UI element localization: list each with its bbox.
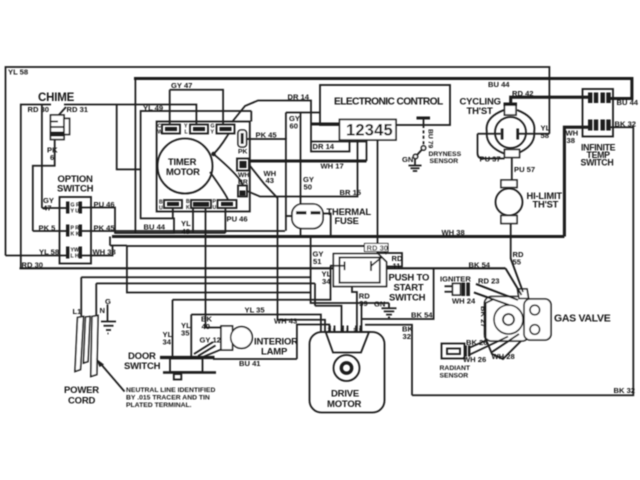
svg-text:BU 41: BU 41 <box>239 359 261 368</box>
svg-text:CHIME: CHIME <box>38 92 75 104</box>
svg-text:BK 27: BK 27 <box>479 306 488 328</box>
svg-text:WH 38: WH 38 <box>442 228 465 237</box>
svg-text:YL 35: YL 35 <box>245 306 266 315</box>
svg-text:43: 43 <box>266 176 274 185</box>
svg-text:PU 37: PU 37 <box>480 155 501 164</box>
svg-text:WH 17: WH 17 <box>321 162 344 171</box>
svg-text:BU 44: BU 44 <box>488 80 510 89</box>
svg-text:DRIVE: DRIVE <box>331 389 359 400</box>
svg-text:CORD: CORD <box>68 396 96 407</box>
svg-text:GY 47: GY 47 <box>171 81 192 90</box>
svg-text:SWITCH: SWITCH <box>57 184 94 195</box>
svg-text:K K: K K <box>71 232 80 238</box>
svg-text:BK 54: BK 54 <box>411 311 433 320</box>
svg-text:PU 46: PU 46 <box>94 200 115 209</box>
svg-text:PK 45: PK 45 <box>94 224 116 233</box>
svg-text:BU 44: BU 44 <box>144 223 166 232</box>
svg-text:38: 38 <box>567 136 575 145</box>
svg-text:FUSE: FUSE <box>335 215 359 226</box>
svg-text:WH: WH <box>238 172 249 179</box>
svg-text:51: 51 <box>313 257 322 266</box>
svg-text:MOTOR: MOTOR <box>166 166 200 177</box>
svg-text:PU 46: PU 46 <box>227 215 248 224</box>
svg-text:BK 32: BK 32 <box>615 120 637 129</box>
svg-text:BK 32: BK 32 <box>614 386 636 395</box>
svg-text:N: N <box>100 306 105 315</box>
svg-text:RD 30: RD 30 <box>28 105 50 114</box>
svg-text:BK 26: BK 26 <box>466 338 488 347</box>
svg-text:LAMP: LAMP <box>261 347 288 358</box>
svg-text:WH 28: WH 28 <box>492 352 515 361</box>
svg-text:58: 58 <box>541 131 549 140</box>
svg-text:BR 15: BR 15 <box>340 188 362 197</box>
svg-text:DRYNESS: DRYNESS <box>429 151 462 158</box>
svg-text:40: 40 <box>202 322 210 331</box>
svg-text:WH 43: WH 43 <box>274 317 297 326</box>
svg-text:W: W <box>158 130 163 136</box>
svg-text:TH'ST: TH'ST <box>533 199 559 210</box>
svg-text:PLATED TERMINAL.: PLATED TERMINAL. <box>126 402 192 409</box>
svg-text:RD 31: RD 31 <box>67 105 89 114</box>
svg-text:34: 34 <box>163 338 172 347</box>
svg-text:BU 44: BU 44 <box>617 98 639 107</box>
svg-text:IGNITER: IGNITER <box>440 275 471 284</box>
svg-text:DR 14: DR 14 <box>313 142 335 151</box>
svg-text:SWITCH: SWITCH <box>581 158 614 168</box>
svg-text:YL 58: YL 58 <box>8 68 28 77</box>
svg-text:POWER: POWER <box>64 385 99 396</box>
svg-text:U: U <box>159 206 163 212</box>
svg-text:YL 49: YL 49 <box>143 104 163 113</box>
svg-text:GN: GN <box>374 300 385 309</box>
svg-text:BK 54: BK 54 <box>469 261 491 270</box>
svg-text:RD 30: RD 30 <box>22 261 44 270</box>
svg-text:49: 49 <box>182 227 190 236</box>
svg-text:PK 45: PK 45 <box>256 131 278 140</box>
svg-text:RD 42: RD 42 <box>512 89 534 98</box>
svg-text:DR 14: DR 14 <box>288 93 310 102</box>
svg-text:SWITCH: SWITCH <box>389 293 426 304</box>
svg-text:ELECTRONIC CONTROL: ELECTRONIC CONTROL <box>334 97 443 108</box>
svg-text:SENSOR: SENSOR <box>440 373 469 380</box>
svg-text:WH 26: WH 26 <box>463 355 486 364</box>
svg-text:Y: Y <box>211 130 215 136</box>
svg-text:BY .015 TRACER AND TIN: BY .015 TRACER AND TIN <box>126 395 210 402</box>
svg-text:11: 11 <box>393 262 402 271</box>
svg-text:GAS VALVE: GAS VALVE <box>554 313 611 325</box>
svg-text:60: 60 <box>290 122 298 131</box>
svg-text:WH 38: WH 38 <box>93 248 116 257</box>
svg-text:L H: L H <box>71 254 80 260</box>
svg-text:32: 32 <box>403 332 411 341</box>
svg-text:BU 79: BU 79 <box>427 129 434 148</box>
svg-text:YL 58: YL 58 <box>39 248 59 257</box>
svg-text:SWITCH: SWITCH <box>124 361 161 372</box>
svg-text:RD 23: RD 23 <box>478 277 500 286</box>
svg-text:34: 34 <box>322 277 331 286</box>
svg-text:RADIANT: RADIANT <box>440 365 471 372</box>
svg-text:50: 50 <box>304 183 312 192</box>
svg-text:47: 47 <box>43 204 51 213</box>
svg-text:K: K <box>186 205 190 211</box>
svg-text:12345: 12345 <box>346 121 393 139</box>
svg-text:L1: L1 <box>73 307 83 316</box>
svg-text:SENSOR: SENSOR <box>430 158 459 165</box>
svg-text:WH 24: WH 24 <box>452 297 476 306</box>
svg-text:35: 35 <box>181 329 190 338</box>
svg-text:U: U <box>213 205 217 211</box>
svg-text:TH'ST: TH'ST <box>467 106 493 117</box>
svg-text:Y U: Y U <box>71 209 80 215</box>
svg-text:MOTOR: MOTOR <box>327 399 362 410</box>
svg-text:GN: GN <box>402 155 413 164</box>
svg-text:NEUTRAL LINE IDENTIFIED: NEUTRAL LINE IDENTIFIED <box>126 387 215 394</box>
svg-text:6: 6 <box>50 153 54 162</box>
svg-text:PU 57: PU 57 <box>514 165 535 174</box>
svg-text:39: 39 <box>359 299 367 308</box>
svg-text:PK: PK <box>238 149 248 156</box>
svg-text:RD 30: RD 30 <box>367 244 389 253</box>
svg-text:PK 5: PK 5 <box>39 224 57 233</box>
